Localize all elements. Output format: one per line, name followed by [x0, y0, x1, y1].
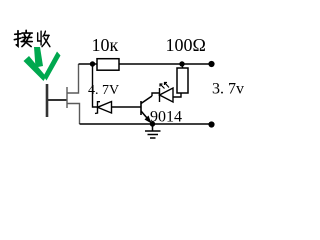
接 character	[14, 30, 32, 46]
wire plate to junction bar	[48, 99, 67, 101]
wire bar to bottom rail	[67, 104, 80, 125]
svg-text:4. 7V: 4. 7V	[88, 83, 119, 98]
terminal dot bottom right	[208, 121, 214, 127]
junction bar node	[66, 87, 68, 108]
zener diode D1	[95, 102, 112, 114]
node dot B (100ohm branch)	[179, 61, 184, 66]
wire 10k to 100ohm junction and terminal	[119, 63, 212, 65]
bottom rail wire	[80, 123, 212, 125]
green arrow pointing to antenna plate	[24, 47, 61, 81]
wire zener branch vertical	[93, 64, 98, 107]
transistor Q1 9014	[141, 96, 152, 122]
top rail wire	[79, 63, 98, 65]
LED D2	[160, 83, 174, 103]
resistor 100 ohm	[177, 68, 188, 93]
antenna / touch plate electrode	[46, 84, 49, 117]
node dot A (zener branch)	[90, 61, 95, 66]
emitter arrowhead	[145, 116, 152, 124]
svg-text:3. 7v: 3. 7v	[212, 81, 244, 98]
wire bar to top rail	[67, 64, 79, 93]
resistor 10k	[97, 59, 119, 70]
node dot emitter/ground	[150, 121, 155, 126]
stub 100ohm top	[182, 64, 184, 68]
wire collector to LED	[152, 93, 160, 96]
收 character	[38, 31, 50, 46]
svg-text:10к: 10к	[92, 35, 119, 55]
label 接收 (receive) drawn as strokes	[14, 30, 50, 46]
wire zener to base	[112, 106, 142, 108]
ground symbol	[145, 124, 161, 138]
wire LED to 100ohm bottom	[173, 93, 181, 97]
svg-text:100Ω: 100Ω	[166, 35, 206, 55]
terminal dot top right	[208, 61, 214, 67]
